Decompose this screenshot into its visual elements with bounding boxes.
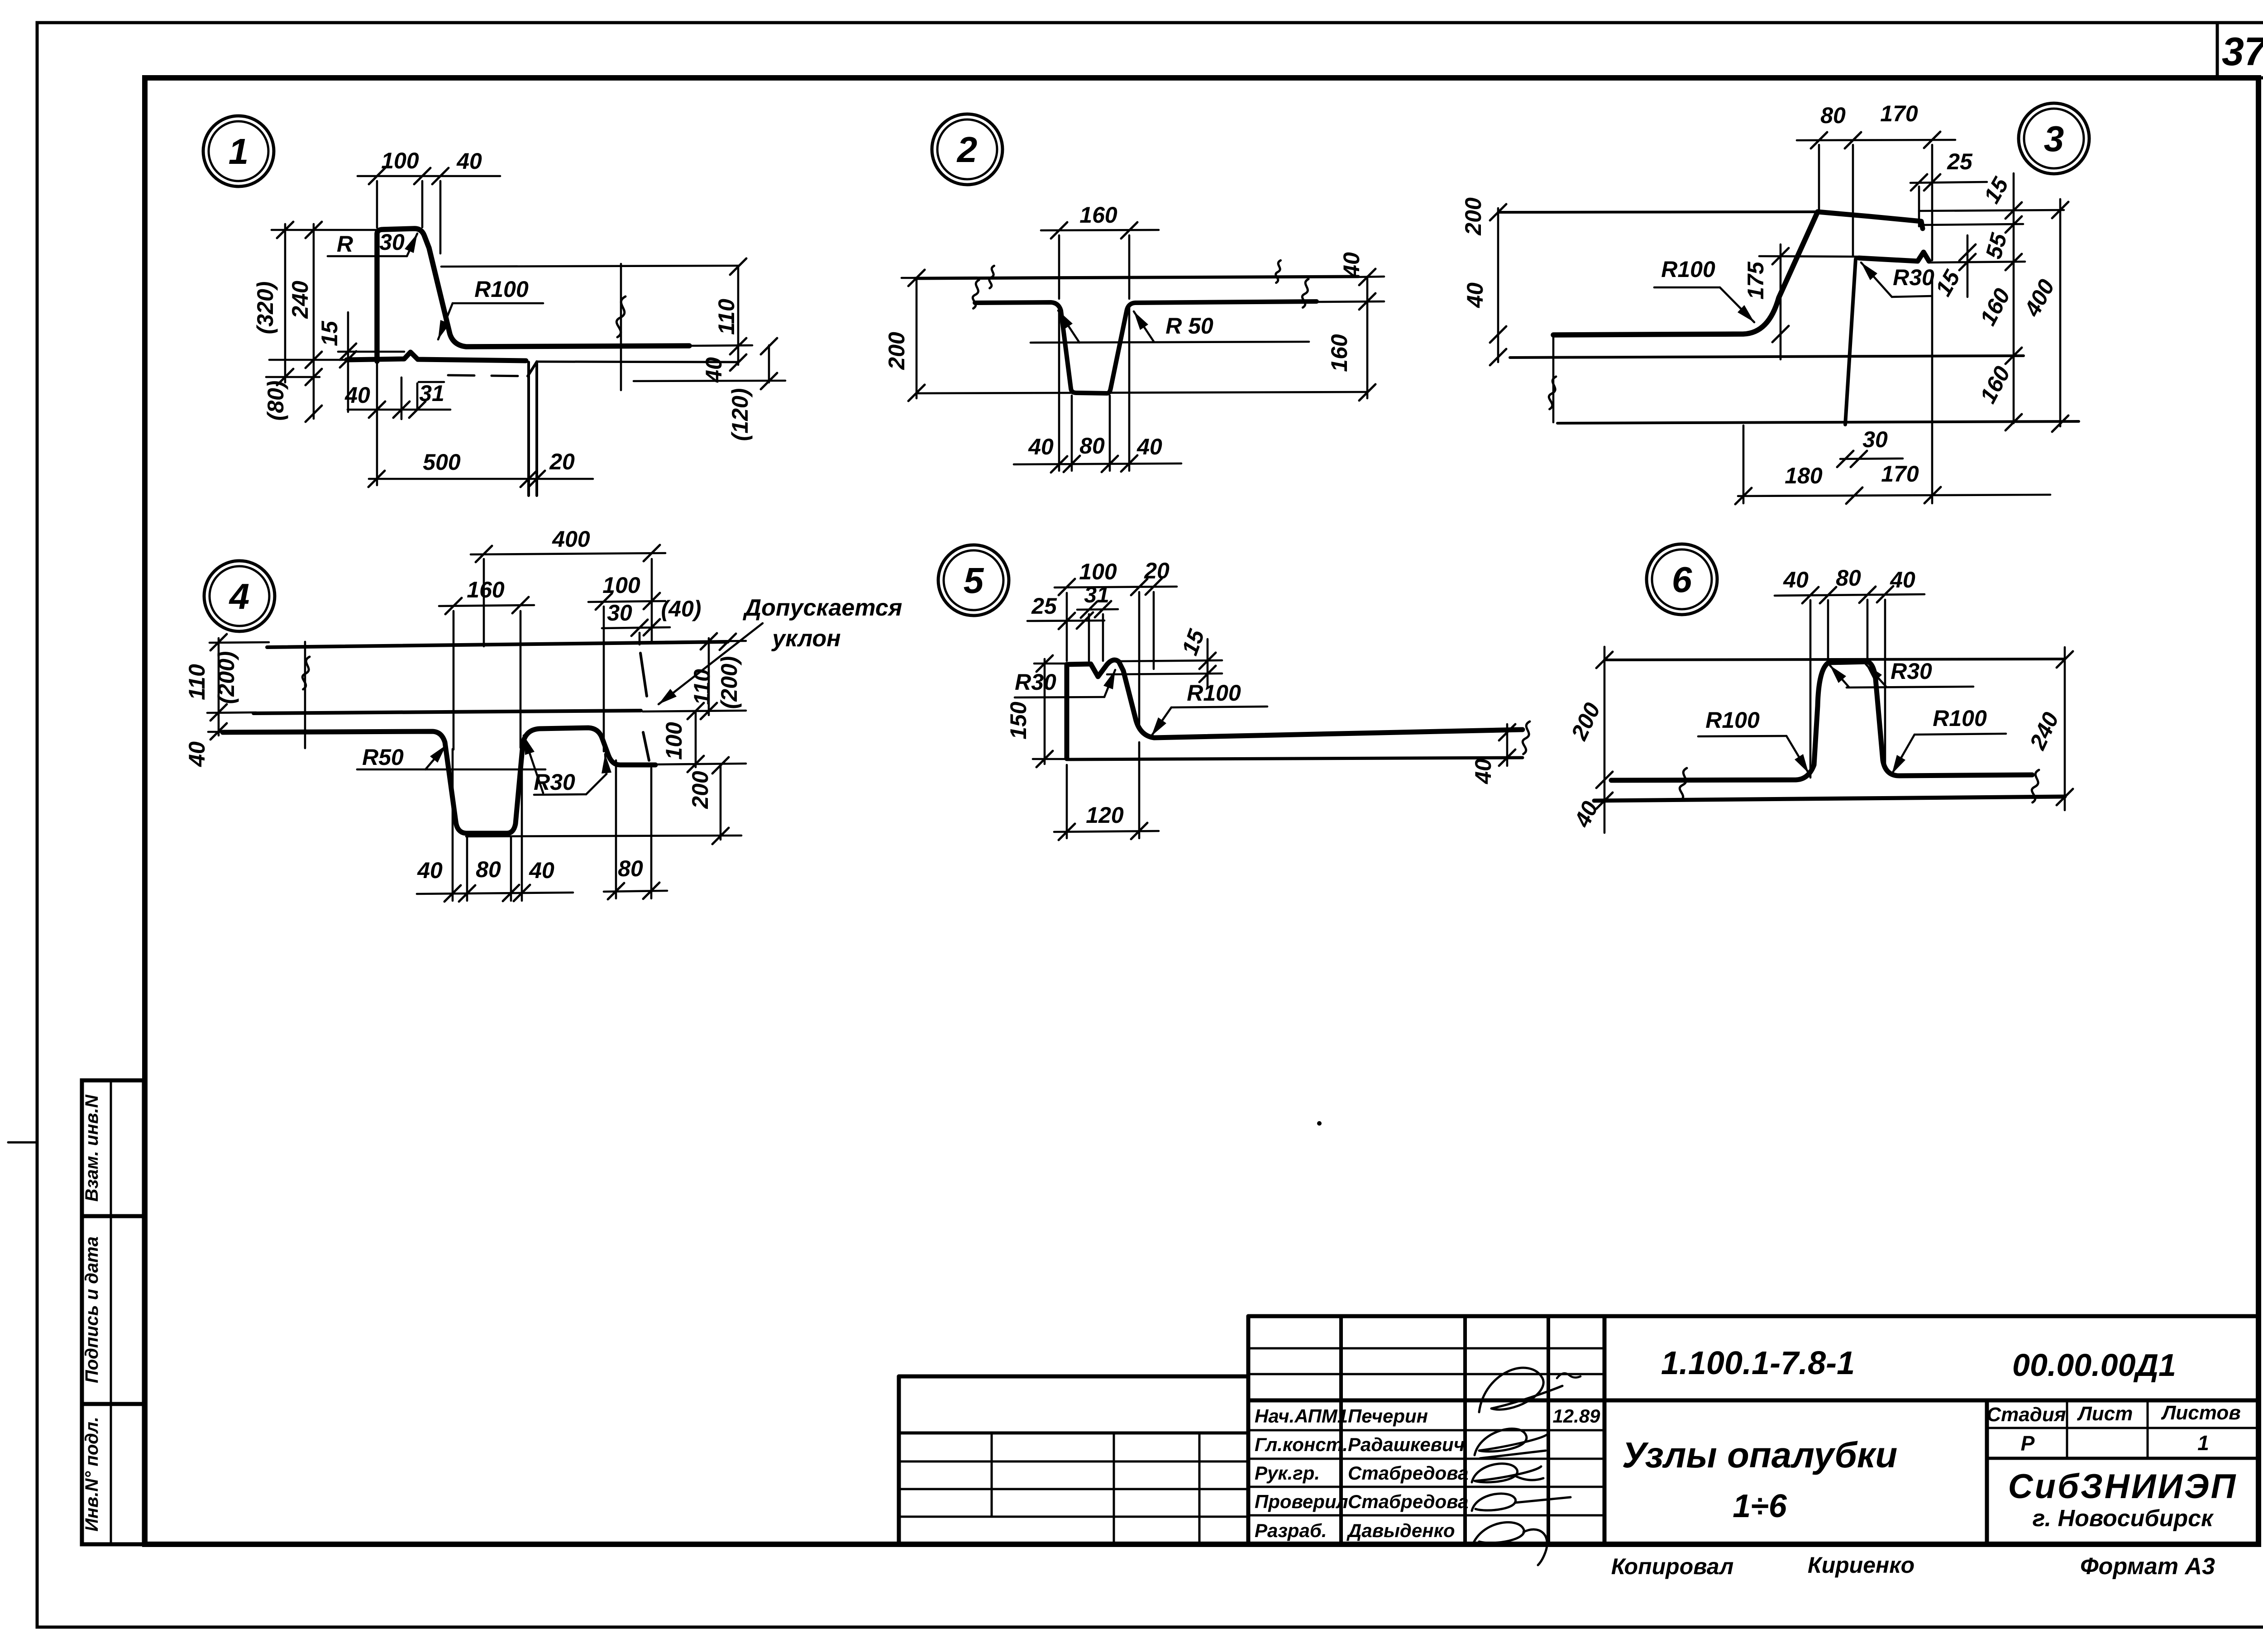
svg-text:1: 1 (2197, 1431, 2209, 1455)
svg-text:Печерин: Печерин (1348, 1405, 1428, 1427)
detail 1 support leg (527, 362, 530, 496)
detail 3 dim 400 (2059, 199, 2062, 426)
detail 1 hidden dashed line (448, 375, 527, 376)
svg-text:100: 100 (381, 148, 419, 173)
svg-text:R 50: R 50 (1165, 313, 1213, 339)
svg-text:180: 180 (1785, 463, 1823, 488)
izm table (899, 1375, 1248, 1379)
detail 6 dim 240 right (2057, 651, 2073, 668)
svg-text:1: 1 (229, 131, 249, 172)
stray dot (1317, 1121, 1322, 1126)
svg-text:1.100.1-7.8-1: 1.100.1-7.8-1 (1661, 1345, 1855, 1381)
svg-text:(80): (80) (263, 381, 288, 421)
svg-text:80: 80 (618, 856, 643, 881)
detail 1 dim (120) right (768, 345, 770, 382)
svg-text:175: 175 (1743, 261, 1768, 300)
detail 1 dim 40/31 lower left (348, 409, 450, 411)
svg-text:40: 40 (1783, 567, 1809, 592)
svg-text:R: R (337, 231, 353, 257)
svg-text:160: 160 (1327, 334, 1352, 372)
left stamp column box (82, 1080, 144, 1544)
svg-text:200: 200 (884, 332, 909, 370)
title block outline (1248, 1314, 2258, 1318)
svg-text:110: 110 (689, 669, 715, 705)
svg-text:Рук.гр.: Рук.гр. (1255, 1462, 1320, 1484)
svg-text:R100: R100 (1187, 680, 1241, 706)
svg-text:15: 15 (317, 320, 342, 346)
svg-text:40: 40 (701, 357, 726, 383)
svg-text:200: 200 (1461, 197, 1486, 236)
detail 1 wall top edge broken (441, 266, 738, 267)
detail 3 dim 200/40 left (1497, 208, 1499, 362)
fold mark left margin (8, 1141, 37, 1144)
svg-text:150: 150 (1006, 702, 1031, 740)
svg-text:80: 80 (1079, 433, 1105, 458)
svg-text:СибЗНИИЭП: СибЗНИИЭП (2008, 1467, 2238, 1506)
detail 2 leader R50 (1031, 342, 1309, 343)
svg-text:30: 30 (607, 600, 632, 625)
page number box 37 (2216, 23, 2219, 78)
svg-text:Подпись и дата: Подпись и дата (82, 1237, 102, 1383)
svg-text:170: 170 (1880, 101, 1918, 126)
detail 6 break marks (1680, 768, 1687, 801)
svg-text:3: 3 (2044, 119, 2064, 159)
svg-text:R30: R30 (1891, 659, 1932, 684)
svg-text:40: 40 (344, 382, 370, 408)
svg-text:Узлы опалубки: Узлы опалубки (1622, 1435, 1898, 1475)
svg-text:6: 6 (1672, 559, 1692, 600)
detail 4 dim 80 bottom right (604, 891, 667, 892)
detail 2 dim 40/160 right (1366, 277, 1369, 398)
svg-text:40: 40 (1890, 567, 1915, 592)
detail 5 dim 40 right (1506, 724, 1509, 766)
svg-text:31: 31 (1084, 582, 1109, 607)
detail 4 right dims (665, 641, 746, 642)
svg-text:(120): (120) (727, 388, 753, 441)
svg-text:Разраб.: Разраб. (1255, 1520, 1327, 1541)
svg-text:г. Новосибирск: г. Новосибирск (2033, 1505, 2214, 1532)
svg-text:1÷6: 1÷6 (1733, 1488, 1787, 1524)
detail 1 leader R30 (328, 255, 407, 258)
detail 6 leader R100 left (1698, 736, 1786, 736)
svg-text:170: 170 (1881, 461, 1919, 487)
detail 3 dim 180/170/30 bottom (1738, 495, 2050, 496)
detail 6 dim 200/40 left (1604, 647, 1606, 833)
detail 3 leader R100 (1654, 286, 1720, 289)
detail 6 leader R100 right (1914, 734, 2006, 735)
svg-text:40: 40 (1462, 282, 1488, 308)
detail 4 dim 160 (439, 605, 534, 606)
detail 3 leader R30 (1892, 296, 1932, 297)
svg-text:100: 100 (661, 722, 687, 760)
detail 4 leader R30 (534, 794, 586, 795)
svg-text:Инв.N° подл.: Инв.N° подл. (82, 1417, 102, 1532)
detail 6 circle (1647, 544, 1717, 615)
svg-text:00.00.00Д1: 00.00.00Д1 (2012, 1347, 2176, 1383)
detail 2 profile trough (975, 301, 1317, 393)
detail 4 underside profile (223, 728, 655, 833)
detail 5 leader R30 (1015, 697, 1104, 697)
detail 4 leader dopuskaetsya uklon (659, 623, 763, 704)
detail 3 profile top edge (1818, 212, 1923, 229)
detail 2 dim 200 left (916, 278, 918, 398)
detail 1 dim 500/20 bottom (369, 478, 593, 480)
svg-text:25: 25 (1031, 593, 1057, 619)
detail 1 circle (203, 116, 274, 186)
title cell (1985, 1400, 1989, 1544)
svg-text:Р: Р (2021, 1432, 2035, 1455)
svg-text:20: 20 (549, 449, 575, 474)
svg-text:Лист: Лист (2077, 1403, 2133, 1425)
svg-text:(200): (200) (214, 651, 239, 704)
detail 4 leader R50 (357, 769, 545, 771)
svg-text:Стабредова: Стабредова (1348, 1462, 1468, 1484)
svg-text:80: 80 (476, 857, 501, 882)
detail 4 circle (204, 561, 275, 631)
detail 3 profile notch line (1859, 252, 1929, 261)
svg-text:(40): (40) (661, 596, 702, 621)
svg-text:R30: R30 (1893, 265, 1934, 290)
svg-text:37: 37 (2222, 29, 2263, 74)
detail 1 dim 110/40 right (737, 266, 740, 365)
svg-text:Гл.конст.: Гл.конст. (1255, 1434, 1348, 1455)
svg-text:40: 40 (417, 858, 443, 883)
svg-text:40: 40 (1028, 434, 1054, 459)
detail 1 profile panel bottom (347, 352, 526, 361)
detail 3 top surface thin (1498, 212, 1818, 212)
detail 1 panel bottom thin right (537, 362, 738, 362)
detail 6 dim 40/80/40 top (1775, 594, 1924, 596)
svg-text:R100: R100 (1933, 706, 1987, 731)
svg-text:R100: R100 (474, 277, 529, 302)
stadia list listov (1987, 1427, 2258, 1429)
detail 2 circle (932, 114, 1003, 185)
detail 3 wall line (1845, 259, 1856, 425)
svg-text:уклон: уклон (771, 625, 840, 652)
detail 2 trough bottom ext line (917, 392, 1367, 393)
svg-text:40: 40 (184, 741, 210, 767)
svg-text:500: 500 (423, 449, 461, 475)
detail 3 dim 80/170 top (1797, 140, 1955, 140)
svg-text:Формат А3: Формат А3 (2080, 1553, 2215, 1580)
svg-text:R50: R50 (362, 745, 404, 770)
detail 3 dim 25 (1910, 182, 1987, 183)
svg-text:100: 100 (602, 573, 640, 598)
detail 5 leader R100 (1171, 707, 1267, 707)
detail 5 dim 31 (1077, 609, 1118, 610)
svg-text:Давыденко: Давыденко (1346, 1520, 1455, 1541)
detail 5 dim 120 bottom (1054, 831, 1159, 832)
detail 5 dim 15 (1118, 660, 1222, 661)
detail 2 dim 160 top (1041, 230, 1159, 230)
svg-text:80: 80 (1820, 103, 1846, 128)
detail 5 dim 25 (1027, 621, 1104, 621)
detail 4 dim 110/(200)/40 left (210, 642, 269, 643)
signatures (1479, 1368, 1562, 1412)
detail 5 profile (1067, 660, 1523, 759)
detail 4 left break line (304, 642, 306, 748)
svg-text:110: 110 (184, 664, 210, 700)
svg-text:12.89: 12.89 (1552, 1405, 1600, 1427)
svg-text:20: 20 (1144, 558, 1170, 583)
svg-text:(200): (200) (716, 656, 742, 709)
detail 4 slab top (267, 642, 728, 647)
svg-text:31: 31 (419, 381, 444, 406)
svg-text:200: 200 (687, 771, 713, 809)
detail 3 dim 175 (1759, 256, 1858, 257)
signature table (1339, 1316, 1343, 1544)
svg-text:40: 40 (1136, 434, 1162, 459)
svg-text:400: 400 (552, 526, 590, 552)
svg-text:240: 240 (287, 281, 313, 319)
detail 5 dim 150 left (1034, 663, 1072, 665)
svg-text:Копировал: Копировал (1611, 1554, 1734, 1579)
svg-text:100: 100 (1079, 559, 1117, 584)
svg-text:40: 40 (1339, 252, 1364, 278)
detail 6 top ext line (1604, 659, 2065, 660)
detail 3 left break line (1552, 335, 1555, 422)
detail 4 slab bottom (253, 711, 641, 713)
detail 3 thin ext top right (1919, 210, 2064, 211)
detail 5 panel bottom (1067, 758, 1523, 759)
detail 3 right dim column (2013, 173, 2015, 423)
detail 3 profile slope and bottom (1553, 212, 1818, 335)
svg-text:Радашкевич: Радашкевич (1348, 1434, 1465, 1455)
detail 3 lower thin lines (1510, 356, 2024, 358)
detail 3 circle (2019, 103, 2089, 174)
svg-text:120: 120 (1086, 802, 1124, 828)
svg-text:R100: R100 (1661, 257, 1715, 282)
svg-text:R30: R30 (1015, 669, 1056, 695)
svg-text:R100: R100 (1705, 707, 1760, 733)
svg-text:Листов: Листов (2161, 1402, 2241, 1424)
svg-text:5: 5 (964, 560, 984, 601)
svg-text:Проверил: Проверил (1255, 1491, 1348, 1512)
svg-text:40: 40 (456, 148, 482, 174)
svg-text:Взам. инв.N: Взам. инв.N (82, 1094, 102, 1202)
svg-text:160: 160 (467, 577, 505, 602)
svg-text:Кириенко: Кириенко (1808, 1552, 1914, 1578)
svg-text:R30: R30 (534, 769, 575, 795)
detail 6 leader R30 (1847, 687, 1973, 688)
svg-text:80: 80 (1836, 565, 1861, 591)
detail 1 dim 15 (338, 351, 404, 353)
svg-text:110: 110 (714, 299, 739, 335)
svg-text:30: 30 (379, 229, 405, 255)
svg-text:2: 2 (956, 129, 978, 170)
detail 4 dim 100 (588, 601, 665, 602)
detail 5 circle (938, 545, 1009, 616)
detail 5 dim 100/20 top (1055, 587, 1177, 587)
svg-text:Стабредова: Стабредова (1348, 1491, 1468, 1512)
svg-text:25: 25 (1947, 149, 1973, 174)
detail 2 dim 40/80/40 bottom (1014, 463, 1181, 464)
detail 1 dim 100/40 top (358, 175, 500, 177)
svg-text:40: 40 (1470, 759, 1496, 784)
svg-text:Нач.АПМ1: Нач.АПМ1 (1255, 1405, 1348, 1427)
detail 6 profile slab and rib (1611, 662, 2032, 780)
detail 4 dim 400 (471, 553, 665, 554)
svg-text:30: 30 (1862, 427, 1888, 452)
svg-text:4: 4 (229, 576, 250, 616)
detail 4 break dashes right (640, 653, 647, 696)
detail 4 dim 40/80/40 bottom (417, 893, 573, 894)
svg-text:160: 160 (1079, 202, 1117, 228)
detail 4 dim 30 and (40) (602, 627, 670, 628)
svg-text:(320): (320) (253, 282, 278, 334)
detail 1 profile rib (377, 229, 689, 361)
svg-text:40: 40 (529, 858, 554, 883)
detail 6 slab bottom (1594, 797, 2065, 801)
detail 2 break marks (973, 280, 979, 309)
detail 2 top surface (915, 277, 1358, 278)
svg-text:Стадия: Стадия (1986, 1404, 2066, 1426)
svg-text:Допускается: Допускается (743, 595, 902, 621)
detail 1 dim (320)/240 left (272, 229, 382, 231)
detail 1 leader R100 (453, 302, 543, 305)
